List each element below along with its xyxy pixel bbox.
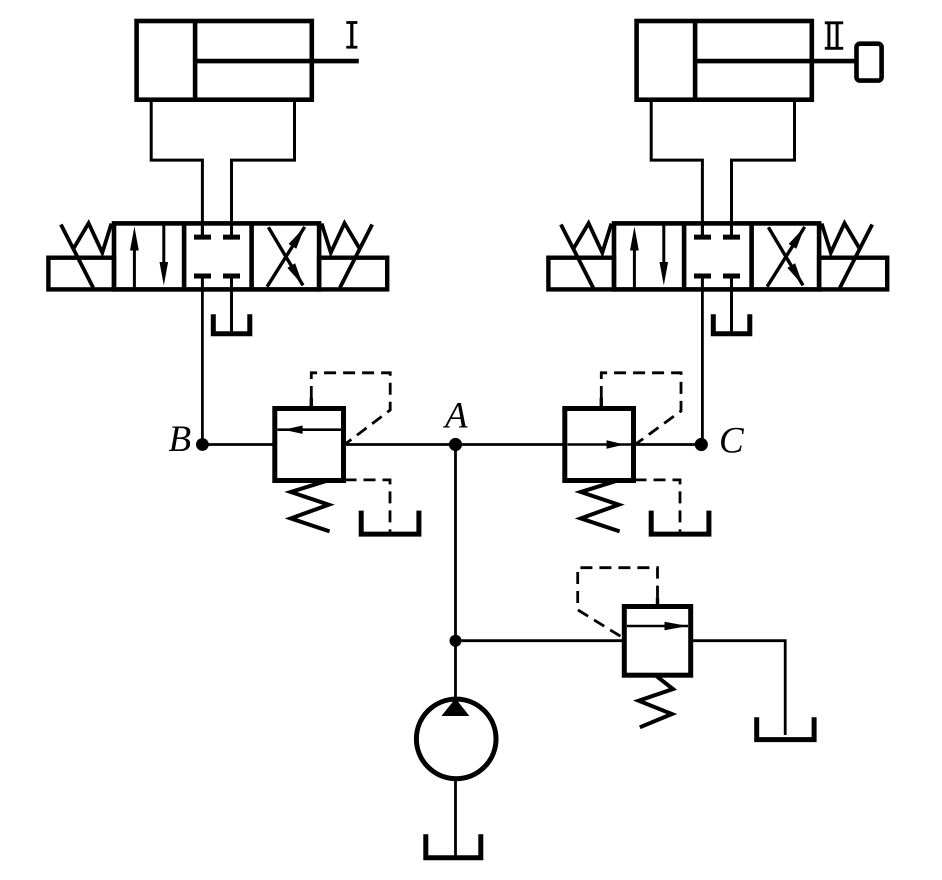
relief valve RV body [624,607,690,676]
wire node A to pump junction [454,445,457,641]
valve V2 left spring [573,223,611,253]
sequence valve SV1 pilot stub [310,398,313,409]
label II [825,23,843,49]
valve V2 left position up arrow [630,227,639,289]
cylinder I rod [195,59,359,64]
valve V1 center position blocked port T bottom-right [223,276,240,289]
cylinder II body [637,21,812,100]
valve V1 left solenoid slash [61,225,93,288]
wire relief valve outlet to tank T5 [691,641,786,735]
valve V2 right solenoid slash [840,225,872,288]
valve V2 right spring [822,223,860,253]
valve V2 left solenoid slash [561,225,593,288]
sequence valve SV1 drain line dashed [345,480,391,532]
valve V2 right solenoid box [819,258,887,290]
valve V2 divider 1 [682,223,687,289]
tank T1 below valve V1 [213,314,250,334]
valve V1 right solenoid slash [340,225,372,288]
valve V1 right position crossed arrow 1 [267,227,305,287]
valve V1 divider 1 [182,223,187,289]
valve V1 center position blocked port T top-left [194,223,211,237]
valve V1 center position blocked port T bottom-left [194,276,211,289]
sequence valve SV2 drain line dashed [635,480,681,532]
wire node B to node C main line [202,443,701,446]
cylinder II rod [695,59,856,64]
sequence valve SV1 pilot line dashed [311,373,390,444]
wire valve V2 to node C [701,289,704,444]
wire cylinder I right port to valve V1 port B [232,100,295,237]
valve V2 center position blocked port T top-right [723,223,740,237]
pump P1 outlet triangle [441,699,469,717]
sequence valve SV2 pilot stub [600,398,603,409]
svg-text:C: C [719,421,745,462]
valve V2 body [614,223,819,289]
relief valve RV pilot stub [656,598,659,607]
valve V1 left position up arrow [130,227,139,289]
wire valve V1 tank port [230,289,233,331]
valve V1 left spring [73,223,111,253]
sequence valve SV2 flow path arrow [568,440,632,449]
sequence valve SV1 body [275,409,344,481]
valve V2 center position blocked port T bottom-left [694,276,711,289]
sequence valve SV2 spring [581,481,620,532]
pump junction node [450,635,462,647]
tank T4 drain of SV2 [651,511,709,534]
wire valve V1 to node B [201,289,204,444]
wire cylinder II left port to valve V2 port A [651,100,702,237]
cylinder I body [137,21,312,100]
tank T2 below valve V2 [713,314,750,334]
svg-text:A: A [442,396,468,437]
valve V2 right position crossed arrow 1 [767,227,805,287]
sequence valve SV2 pilot line dashed [601,373,681,445]
tank T6 pump suction [426,834,481,858]
wire pump suction to tank T6 [454,780,457,857]
valve V1 right spring [322,223,360,253]
tank T3 drain of SV1 [361,511,419,534]
valve V1 body [114,223,319,289]
wire junction to pump [454,641,457,700]
cylinder II piston [693,21,698,100]
node C [695,438,708,451]
valve V1 right position crossed arrow 2 [268,227,303,285]
node B [196,438,209,451]
valve V1 right solenoid box [319,258,387,290]
valve V2 divider 2 [749,223,754,289]
relief valve RV pilot line dashed [578,568,658,639]
node A [449,438,462,451]
wire cylinder I left port to valve V1 port A [151,100,202,237]
cylinder II load block [857,44,882,81]
sequence valve SV1 spring [291,481,330,532]
valve V1 left position down arrow [160,225,169,286]
valve V2 center position blocked port T top-left [694,223,711,237]
svg-text:B: B [169,419,192,460]
relief valve RV spring [639,675,673,727]
valve V1 center position blocked port T top-right [223,223,240,237]
sequence valve SV2 body [565,409,634,481]
cylinder I piston [193,21,198,100]
relief valve RV flow path arrow [627,622,688,631]
wire valve V2 tank port [730,289,733,331]
valve V1 left solenoid box [48,258,114,290]
valve V2 left solenoid box [548,258,614,290]
wire cylinder II right port to valve V2 port B [732,100,795,237]
tank T5 relief drain [757,717,814,739]
valve V2 left position down arrow [660,225,669,286]
pump P1 circle [416,699,496,779]
valve V2 center position blocked port T bottom-right [723,276,740,289]
valve V1 divider 2 [249,223,254,289]
valve V2 right position crossed arrow 2 [768,227,803,285]
wire junction to relief valve [456,639,625,642]
sequence valve SV1 flow path arrow [278,426,342,434]
label I [346,23,357,48]
